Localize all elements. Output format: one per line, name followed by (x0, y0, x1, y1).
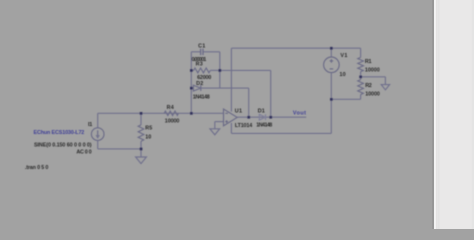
svg-text:10: 10 (340, 72, 346, 78)
svg-text:1N4148: 1N4148 (193, 95, 210, 101)
svg-text:10000: 10000 (165, 118, 180, 124)
svg-text:10000: 10000 (365, 91, 380, 97)
svg-text:SINE(0 0.150 60 0 0 0 0): SINE(0 0.150 60 0 0 0 0) (34, 143, 92, 149)
svg-text:1N4148: 1N4148 (256, 123, 272, 129)
svg-text:10000: 10000 (365, 68, 380, 74)
svg-text:D1: D1 (258, 108, 265, 114)
svg-text:R3: R3 (196, 62, 203, 68)
svg-text:R5: R5 (145, 125, 152, 131)
svg-text:C1: C1 (198, 44, 205, 50)
svg-text:R4: R4 (167, 105, 174, 111)
svg-text:D2: D2 (196, 81, 203, 87)
svg-text:AC 0 0: AC 0 0 (76, 149, 91, 155)
svg-text:R2: R2 (365, 83, 372, 89)
svg-text:EChun ECS1030-L72: EChun ECS1030-L72 (34, 130, 85, 136)
svg-text:Vout: Vout (293, 110, 306, 116)
svg-text:V1: V1 (340, 53, 347, 59)
svg-text:U1: U1 (235, 109, 242, 115)
svg-text:LT1014: LT1014 (235, 123, 252, 129)
svg-text:I1: I1 (88, 122, 92, 128)
svg-text:.tran 0 5 0: .tran 0 5 0 (25, 165, 49, 171)
svg-text:R1: R1 (365, 59, 372, 65)
svg-text:10: 10 (145, 135, 151, 141)
